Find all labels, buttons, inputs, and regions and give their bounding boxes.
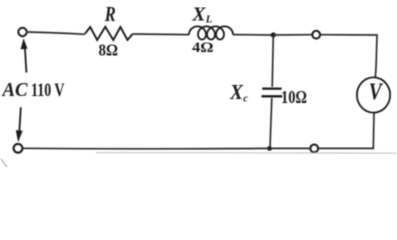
terminal bottom-left — [14, 144, 23, 153]
capacitor branch wire lower — [270, 98, 272, 148]
wire R to XL — [133, 33, 190, 36]
wire top-left segment — [27, 32, 85, 34]
svg-text:10Ω: 10Ω — [281, 87, 307, 107]
svg-text:V: V — [369, 79, 384, 105]
junction node bottom — [267, 146, 272, 151]
wire terminal to corner — [320, 35, 377, 69]
svg-text:X: X — [229, 80, 244, 104]
junction node top — [271, 32, 276, 37]
source arrow upper (points up) — [25, 48, 27, 73]
terminal bottom-mid — [310, 145, 318, 153]
wire XL to junction — [233, 34, 273, 36]
voltmeter V — [357, 77, 390, 112]
capacitor Xc top plate — [262, 87, 281, 89]
capacitor branch wire upper — [272, 35, 273, 87]
svg-text:8Ω: 8Ω — [99, 40, 119, 59]
svg-text:X: X — [191, 5, 206, 26]
scan artifact: bottom-left diagonal smudge — [1, 159, 7, 167]
svg-text:110 V: 110 V — [31, 80, 65, 101]
capacitor Xc bottom plate — [262, 95, 283, 97]
inductor XL — [189, 26, 233, 39]
scan artifact: faint echo line below bottom wire — [96, 152, 396, 155]
wire voltmeter to bottom corner — [318, 113, 374, 149]
svg-text:AC: AC — [1, 79, 28, 101]
svg-text:R: R — [104, 2, 116, 26]
wire junction to terminal — [273, 34, 312, 36]
source arrow lower (points down) — [19, 107, 20, 130]
svg-text:4Ω: 4Ω — [192, 40, 214, 56]
terminal top-mid — [312, 31, 320, 39]
terminal top-left — [18, 28, 26, 36]
resistor R — [85, 27, 133, 40]
svg-text:L: L — [205, 13, 213, 25]
svg-text:c: c — [243, 94, 248, 105]
wire stub to voltmeter — [374, 69, 377, 78]
wire bottom mid segment — [270, 147, 311, 149]
wire bottom-left segment — [23, 147, 270, 150]
